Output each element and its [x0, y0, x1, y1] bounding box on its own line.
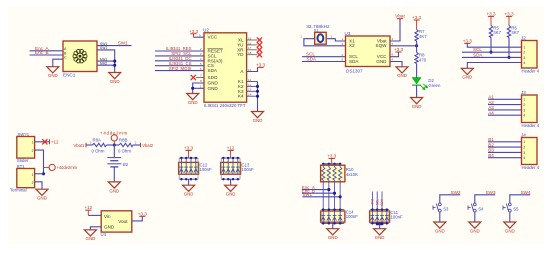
wire terminal pin1 [35, 173, 44, 175]
svg-text:SDO: SDO [208, 75, 218, 80]
ground C13 [225, 185, 237, 196]
junction [339, 195, 342, 198]
svg-text:4x10K: 4x10K [346, 172, 358, 177]
svg-text:SDA: SDA [473, 52, 483, 57]
junction [42, 172, 45, 175]
svg-text:Vin: Vin [104, 214, 111, 219]
svg-text:Vout: Vout [118, 219, 128, 224]
svg-text:U2: U2 [203, 28, 209, 33]
wire net ILI9341_DC [155, 60, 204, 62]
svg-text:R8A: R8A [93, 138, 101, 143]
svg-text:GND: GND [397, 73, 407, 78]
svg-text:2: 2 [523, 51, 525, 55]
svg-text:+3.3: +3.3 [256, 62, 266, 67]
svg-text:GND: GND [48, 73, 58, 78]
junction SQW node [415, 44, 418, 47]
svg-text:S5: S5 [513, 206, 519, 211]
svg-text:3V3: 3V3 [371, 199, 375, 205]
svg-text:1: 1 [523, 140, 525, 144]
wire U4 gnd [90, 227, 101, 230]
wire riser [381, 192, 383, 210]
wire net A1 [488, 98, 522, 100]
wire net A3 [488, 109, 522, 111]
wire net B4 [488, 157, 522, 159]
svg-text:3: 3 [523, 108, 525, 112]
wire crystal pin1 to U3 X1 [327, 39, 345, 41]
wire net A4 [488, 114, 522, 116]
junction [489, 51, 492, 54]
wire net B2 [488, 146, 522, 148]
svg-text:+3.3: +3.3 [189, 29, 199, 34]
svg-text:YD: YD [237, 52, 244, 57]
svg-text:B1: B1 [488, 137, 494, 142]
wire R10 top rail [323, 163, 340, 165]
capacitor bank C13 100nF [221, 162, 241, 174]
wire slider pin1 [35, 141, 49, 143]
svg-text:GND: GND [505, 228, 515, 233]
wire J2 pin4 to ground [467, 63, 521, 69]
wire LED to ground [416, 86, 418, 98]
wire MH1 [97, 60, 115, 62]
wire [133, 144, 140, 146]
svg-text:B4: B4 [488, 153, 494, 158]
svg-text:+3.3: +3.3 [504, 11, 514, 16]
svg-text:+4dde2mm: +4dde2mm [57, 165, 78, 170]
svg-text:GND: GND [110, 79, 120, 84]
svg-text:A4: A4 [488, 110, 494, 115]
ground LED [411, 98, 423, 109]
wire Enc_B to encoder pin B [30, 54, 63, 56]
svg-text:GND: GND [375, 235, 385, 240]
wire A to +3.3 [247, 67, 258, 71]
wire MH2 [97, 64, 115, 66]
wire net SW1 [303, 196, 341, 198]
wire riser [376, 192, 378, 210]
wire Vout to +3.3 [132, 216, 143, 221]
svg-text:4K7: 4K7 [419, 34, 427, 39]
push button S4 [468, 203, 476, 212]
wire R7 to SQW node [416, 41, 418, 46]
wire GND pin4 [390, 62, 402, 67]
svg-text:SDA: SDA [349, 59, 359, 64]
svg-text:100nF: 100nF [200, 167, 213, 172]
svg-text:Vbat2: Vbat2 [142, 143, 154, 148]
wire J2 pin1 [467, 43, 521, 47]
wire SQW node to R8 [416, 46, 418, 53]
svg-text:GND: GND [435, 228, 445, 233]
svg-text:Header 4: Header 4 [522, 165, 540, 170]
svg-text:SDA: SDA [208, 68, 218, 73]
svg-text:4: 4 [523, 156, 525, 160]
wire button to ground [474, 212, 476, 222]
no-ERC cross [42, 139, 47, 144]
power Vbat2 flag [140, 143, 142, 148]
wire net Enc_B [302, 192, 335, 194]
wire Enc_A to encoder pin A [30, 50, 63, 52]
svg-text:A3: A3 [488, 105, 494, 110]
svg-text:GND: GND [104, 225, 115, 230]
svg-text:GND: GND [412, 104, 422, 109]
wire net SW1 [97, 45, 132, 47]
svg-text:B2: B2 [488, 142, 494, 147]
svg-text:X2: X2 [349, 43, 355, 48]
svg-text:+3.3: +3.3 [394, 47, 404, 52]
ground encoder shield [109, 73, 121, 84]
svg-text:GND: GND [208, 86, 219, 91]
wire net SPI2_SCL [155, 55, 204, 57]
wire R5 to bus [490, 38, 492, 53]
svg-text:4K7: 4K7 [511, 30, 519, 35]
svg-text:4: 4 [523, 61, 525, 65]
junction [333, 192, 336, 195]
svg-text:1: 1 [523, 98, 525, 102]
wire battery to ground [113, 167, 115, 182]
push button S5 [503, 203, 511, 212]
svg-text:+12: +12 [51, 139, 59, 144]
svg-text:100nF: 100nF [346, 214, 359, 219]
wire backlight cathodes to ground [257, 82, 259, 112]
svg-text:Vbat: Vbat [395, 14, 405, 19]
svg-text:GND: GND [226, 192, 236, 197]
svg-text:GND: GND [328, 235, 338, 240]
junction [327, 188, 330, 191]
svg-text:A2: A2 [488, 100, 494, 105]
wire SQW pin7 to pullup node [390, 45, 417, 47]
power +12 slider [49, 139, 51, 144]
svg-text:GND: GND [470, 228, 480, 233]
wire net SW2 [440, 195, 460, 203]
svg-text:GND: GND [253, 118, 263, 123]
svg-text:0 Ohm: 0 Ohm [118, 148, 131, 153]
svg-text:100nF: 100nF [242, 167, 255, 172]
svg-text:4: 4 [523, 114, 525, 118]
svg-text:GND: GND [188, 100, 198, 105]
wire net B1 [488, 141, 522, 143]
svg-text:SW1: SW1 [303, 192, 313, 197]
wire encoder pin C to ground [53, 59, 63, 66]
ground battery [108, 182, 120, 193]
svg-text:+3.3: +3.3 [486, 11, 496, 16]
svg-text:Header 4: Header 4 [522, 69, 540, 74]
ground C14 [327, 229, 339, 240]
svg-text:C: C [64, 56, 67, 60]
ground C12 [183, 185, 195, 196]
svg-text:R8B: R8B [119, 138, 127, 143]
svg-text:Terminal: Terminal [10, 187, 27, 192]
svg-text:Green: Green [428, 83, 441, 88]
wire [86, 144, 92, 146]
junction [191, 87, 194, 90]
ground S3 [434, 222, 446, 233]
ground C11 [374, 229, 386, 240]
wire net SW3 [475, 195, 495, 203]
svg-text:+12: +12 [84, 205, 92, 210]
wire C14 to ground [332, 223, 334, 228]
svg-text:4K7: 4K7 [493, 30, 501, 35]
svg-text:GND: GND [462, 75, 472, 80]
wire VCC pin8 to +3.3 [390, 52, 399, 57]
svg-text:SW2: SW2 [451, 190, 461, 195]
wire bank to ground [188, 179, 190, 185]
resistor R7 [415, 30, 418, 42]
wire net ILI9341_CS [155, 65, 204, 67]
svg-text:VCC: VCC [208, 35, 218, 40]
ground S5 [504, 222, 516, 233]
svg-text:SW3: SW3 [486, 190, 496, 195]
capacitor bank C12 100nF [179, 162, 199, 174]
wire net SDA [302, 61, 346, 63]
svg-text:GND: GND [184, 192, 194, 197]
svg-text:3: 3 [523, 151, 525, 155]
wire [106, 144, 119, 146]
wire net SCL [302, 56, 346, 58]
svg-text:DS1307: DS1307 [346, 69, 363, 74]
junction [113, 64, 116, 67]
wire R6 to bus [508, 38, 510, 58]
wire net SPI2_MOSI [155, 70, 204, 72]
LED D2 green [412, 78, 421, 85]
svg-text:GND: GND [208, 81, 219, 86]
svg-text:+3.3: +3.3 [138, 211, 148, 216]
svg-text:SCL: SCL [375, 199, 379, 205]
svg-text:GND: GND [376, 59, 387, 64]
svg-text:Slider: Slider [17, 158, 29, 163]
svg-text:U3: U3 [345, 31, 351, 36]
svg-text:+3.3: +3.3 [463, 38, 473, 43]
svg-text:SW1: SW1 [118, 40, 128, 45]
wire Vin [88, 214, 101, 216]
regulator U4 [101, 211, 132, 232]
ground U2 [187, 94, 199, 105]
svg-text:1: 1 [32, 173, 34, 177]
svg-text:Header 4: Header 4 [522, 123, 540, 128]
svg-text:SDA: SDA [307, 57, 317, 62]
pin 7 SDO no-connect [196, 77, 204, 79]
wire bank to ground [230, 179, 232, 185]
svg-text:470: 470 [419, 58, 427, 63]
svg-text:2: 2 [32, 181, 34, 185]
svg-text:Enc_B: Enc_B [35, 50, 49, 55]
svg-text:A1: A1 [488, 95, 494, 100]
wire net A2 [488, 104, 522, 106]
wire slider pin2 to terminal pin1 [35, 150, 44, 174]
svg-text:ILI9341 240x320 TFT: ILI9341 240x320 TFT [204, 103, 246, 108]
wire button to ground [439, 212, 441, 222]
svg-text:Vbat1: Vbat1 [74, 143, 86, 148]
wire riser [371, 192, 373, 210]
resistor R8A 0 Ohm [92, 143, 106, 146]
svg-text:S3: S3 [443, 206, 449, 211]
wire Vbat pin3 [390, 19, 400, 41]
ground backlight [252, 112, 264, 123]
resistor network R10 4x10K [321, 165, 345, 182]
wire net SCL to J2 [462, 51, 522, 53]
resistor R8 [415, 52, 418, 63]
svg-text:GND: GND [109, 188, 119, 193]
svg-text:B3: B3 [488, 148, 494, 153]
svg-text:1: 1 [32, 141, 34, 145]
resistor R6 [507, 26, 510, 38]
svg-text:+3.3: +3.3 [412, 15, 422, 20]
capacitor bank C14 100nF [321, 211, 345, 222]
svg-text:K4: K4 [238, 94, 244, 99]
wire C11 to ground [376, 223, 383, 226]
wire VCC [194, 36, 205, 38]
power port battery net [44, 166, 49, 168]
wire net SW4 [510, 195, 530, 203]
svg-text:2: 2 [32, 149, 34, 153]
svg-text:2: 2 [523, 103, 525, 107]
wire net B3 [488, 151, 522, 153]
wire terminal pin2 to ground [35, 182, 42, 189]
ground U3 [396, 67, 408, 78]
junction battery node [113, 143, 116, 146]
junction [507, 56, 510, 59]
ground J2 [461, 68, 473, 79]
svg-text:ENC1: ENC1 [63, 73, 76, 78]
svg-text:1: 1 [523, 46, 525, 50]
wire SW2 down [97, 50, 115, 73]
battery B2 [113, 145, 115, 157]
svg-text:SQW: SQW [376, 43, 388, 48]
wire net ILI9341_RES [155, 50, 204, 52]
svg-text:+12: +12 [227, 145, 235, 150]
svg-text:100nF: 100nF [391, 214, 404, 219]
wire R8 to LED [416, 64, 418, 78]
svg-text:GND: GND [86, 236, 96, 241]
svg-text:+3.3: +3.3 [184, 145, 194, 150]
rotary encoder ENC1 [63, 41, 97, 72]
svg-text:GND: GND [37, 196, 47, 201]
wire crystal pin2 to U3 X2 [304, 39, 346, 46]
svg-text:B2: B2 [123, 162, 129, 167]
svg-text:0 Ohm: 0 Ohm [92, 148, 105, 153]
ground encoder common [47, 67, 59, 78]
ground terminal [36, 189, 48, 200]
wire net SDA to J2 [462, 56, 522, 58]
svg-text:3: 3 [523, 56, 525, 60]
svg-text:SDA: SDA [380, 198, 384, 205]
push button S3 [433, 203, 441, 212]
svg-text:SW4: SW4 [521, 190, 531, 195]
svg-text:U4: U4 [101, 232, 107, 237]
wire net Enc_A [302, 189, 329, 191]
svg-text:2: 2 [523, 146, 525, 150]
resistor R8B 0 Ohm [119, 143, 133, 146]
wire button to ground [509, 212, 511, 222]
ground S4 [469, 222, 481, 233]
junction [113, 60, 116, 63]
ground U4 [84, 230, 96, 241]
svg-text:+3.3: +3.3 [327, 154, 337, 159]
svg-text:S4: S4 [478, 206, 484, 211]
resistor R5 [489, 26, 492, 38]
svg-text:SPI2_MOSI: SPI2_MOSI [169, 66, 192, 71]
